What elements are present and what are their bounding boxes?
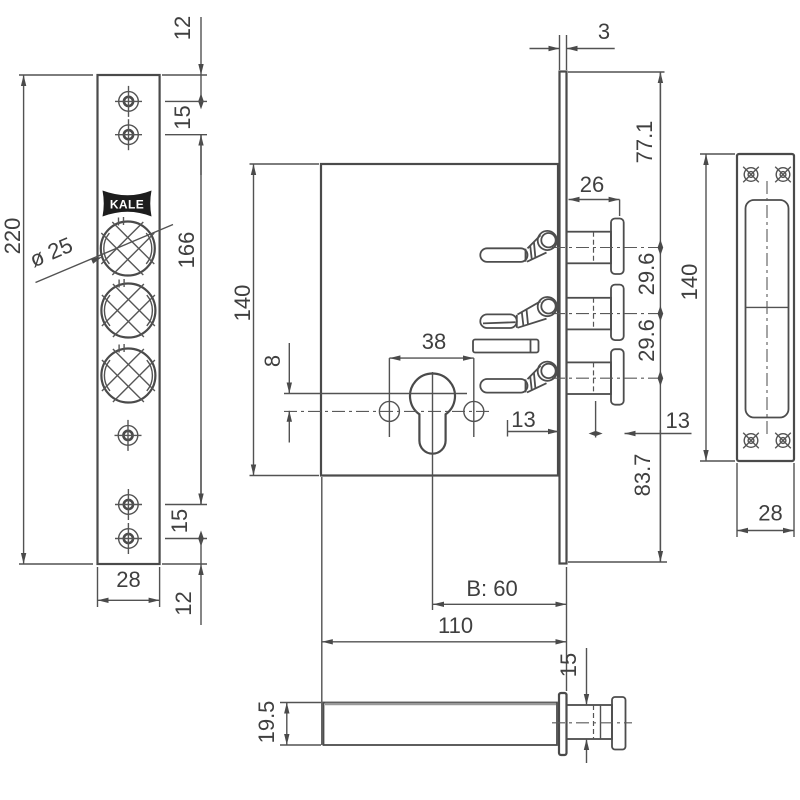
fixing hole right xyxy=(464,401,484,421)
lock body bar xyxy=(324,703,558,746)
faceplate side bar xyxy=(560,72,567,564)
cylinder thumb plan xyxy=(612,697,626,750)
center line hole right xyxy=(473,358,475,437)
pin bolt 2 xyxy=(552,285,662,341)
svg-text:B: 60: B: 60 xyxy=(466,576,517,601)
dia 25 leader xyxy=(26,225,173,283)
dimension 166 xyxy=(174,135,201,505)
dimension 8 xyxy=(260,343,289,443)
dimension 12 bottom xyxy=(162,539,207,626)
lock body outline xyxy=(321,164,558,476)
strike slot xyxy=(746,200,789,418)
dimension 15 bottom xyxy=(165,505,207,547)
svg-text:110: 110 xyxy=(438,613,473,638)
svg-text:38: 38 xyxy=(422,329,446,354)
screw hole top 2 xyxy=(115,119,142,150)
screw hole TL xyxy=(743,167,759,183)
dimension 15 plan xyxy=(556,648,587,763)
svg-text:13: 13 xyxy=(665,408,689,433)
svg-text:12: 12 xyxy=(171,591,196,615)
svg-text:220: 220 xyxy=(0,218,25,255)
faceplate plate outline xyxy=(98,75,160,564)
svg-text:29.6: 29.6 xyxy=(634,319,659,362)
svg-text:26: 26 xyxy=(580,172,604,197)
pin bolt 3 xyxy=(552,349,662,405)
svg-text:15: 15 xyxy=(167,509,192,533)
dimension 12 top xyxy=(162,16,207,110)
dimension 3 faceplate xyxy=(530,19,615,70)
dimension 28 right view xyxy=(737,463,794,537)
svg-text:29.6: 29.6 xyxy=(634,253,659,296)
hatched bolt circle 2 xyxy=(101,279,155,338)
faceplate plan xyxy=(559,693,567,755)
center line hole left xyxy=(388,358,390,437)
follower line xyxy=(284,393,467,395)
dimension 140 middle left xyxy=(230,164,319,476)
svg-text:3: 3 xyxy=(598,19,610,44)
dimension B:60 xyxy=(433,576,567,604)
slot mid line xyxy=(746,306,789,308)
svg-text:140: 140 xyxy=(230,285,255,322)
euro cylinder keyhole xyxy=(410,374,455,454)
svg-text:140: 140 xyxy=(677,264,702,301)
svg-text:ø 25: ø 25 xyxy=(26,232,76,272)
dimension 28 bottom left view xyxy=(98,567,160,607)
cylinder body plan xyxy=(567,705,613,739)
screw hole BL xyxy=(743,433,759,449)
svg-text:19.5: 19.5 xyxy=(254,701,279,744)
dimension 15 top xyxy=(165,101,207,175)
deadbolt bar xyxy=(473,340,539,353)
center line horizontal xyxy=(284,410,493,412)
hatched bolt circle 1 xyxy=(101,217,155,276)
fixing hole left xyxy=(379,401,399,421)
svg-text:83.7: 83.7 xyxy=(630,454,655,497)
center line vertical xyxy=(766,181,768,436)
hook lever 2 xyxy=(480,297,557,328)
dimension 13 left xyxy=(508,407,560,437)
screw hole BR xyxy=(775,433,791,449)
dimension 220 left xyxy=(0,75,93,564)
screw hole middle xyxy=(115,420,142,451)
screw hole TR xyxy=(775,167,791,183)
svg-text:12: 12 xyxy=(170,16,195,40)
hatched bolt circle 3 xyxy=(101,344,155,403)
extension line body left to plan xyxy=(321,477,323,745)
dimension 110 xyxy=(322,613,567,642)
svg-text:13: 13 xyxy=(511,407,535,432)
screw hole bottom 1 xyxy=(115,489,142,520)
center line plan xyxy=(552,722,632,724)
screw hole top 1 xyxy=(115,86,142,117)
hook lever 3 xyxy=(480,362,557,393)
hook lever 1 xyxy=(480,231,557,262)
svg-text:KALE: KALE xyxy=(110,198,144,212)
svg-text:28: 28 xyxy=(758,501,782,526)
svg-text:15: 15 xyxy=(170,105,195,129)
screw hole bottom 2 xyxy=(115,523,142,554)
svg-text:8: 8 xyxy=(260,355,285,367)
svg-text:77.1: 77.1 xyxy=(632,121,657,164)
dimension 19.5 xyxy=(254,701,321,745)
pin bolt 1 xyxy=(552,219,662,275)
svg-text:166: 166 xyxy=(174,232,199,269)
svg-text:15: 15 xyxy=(556,653,581,677)
dimension 38 xyxy=(389,329,473,358)
svg-text:28: 28 xyxy=(116,567,140,592)
KALE logo xyxy=(103,191,152,217)
extension line faceplate to plan xyxy=(566,567,568,691)
dimension chain right: 77.1 / 29.6 / 29.6 / 83.7 xyxy=(568,72,667,562)
dimension 13 right xyxy=(589,401,692,438)
cylinder axis vertical xyxy=(432,372,434,610)
dimension 26 xyxy=(569,172,620,216)
dimension 140 right view xyxy=(677,154,735,461)
strike plate outline xyxy=(737,154,794,461)
